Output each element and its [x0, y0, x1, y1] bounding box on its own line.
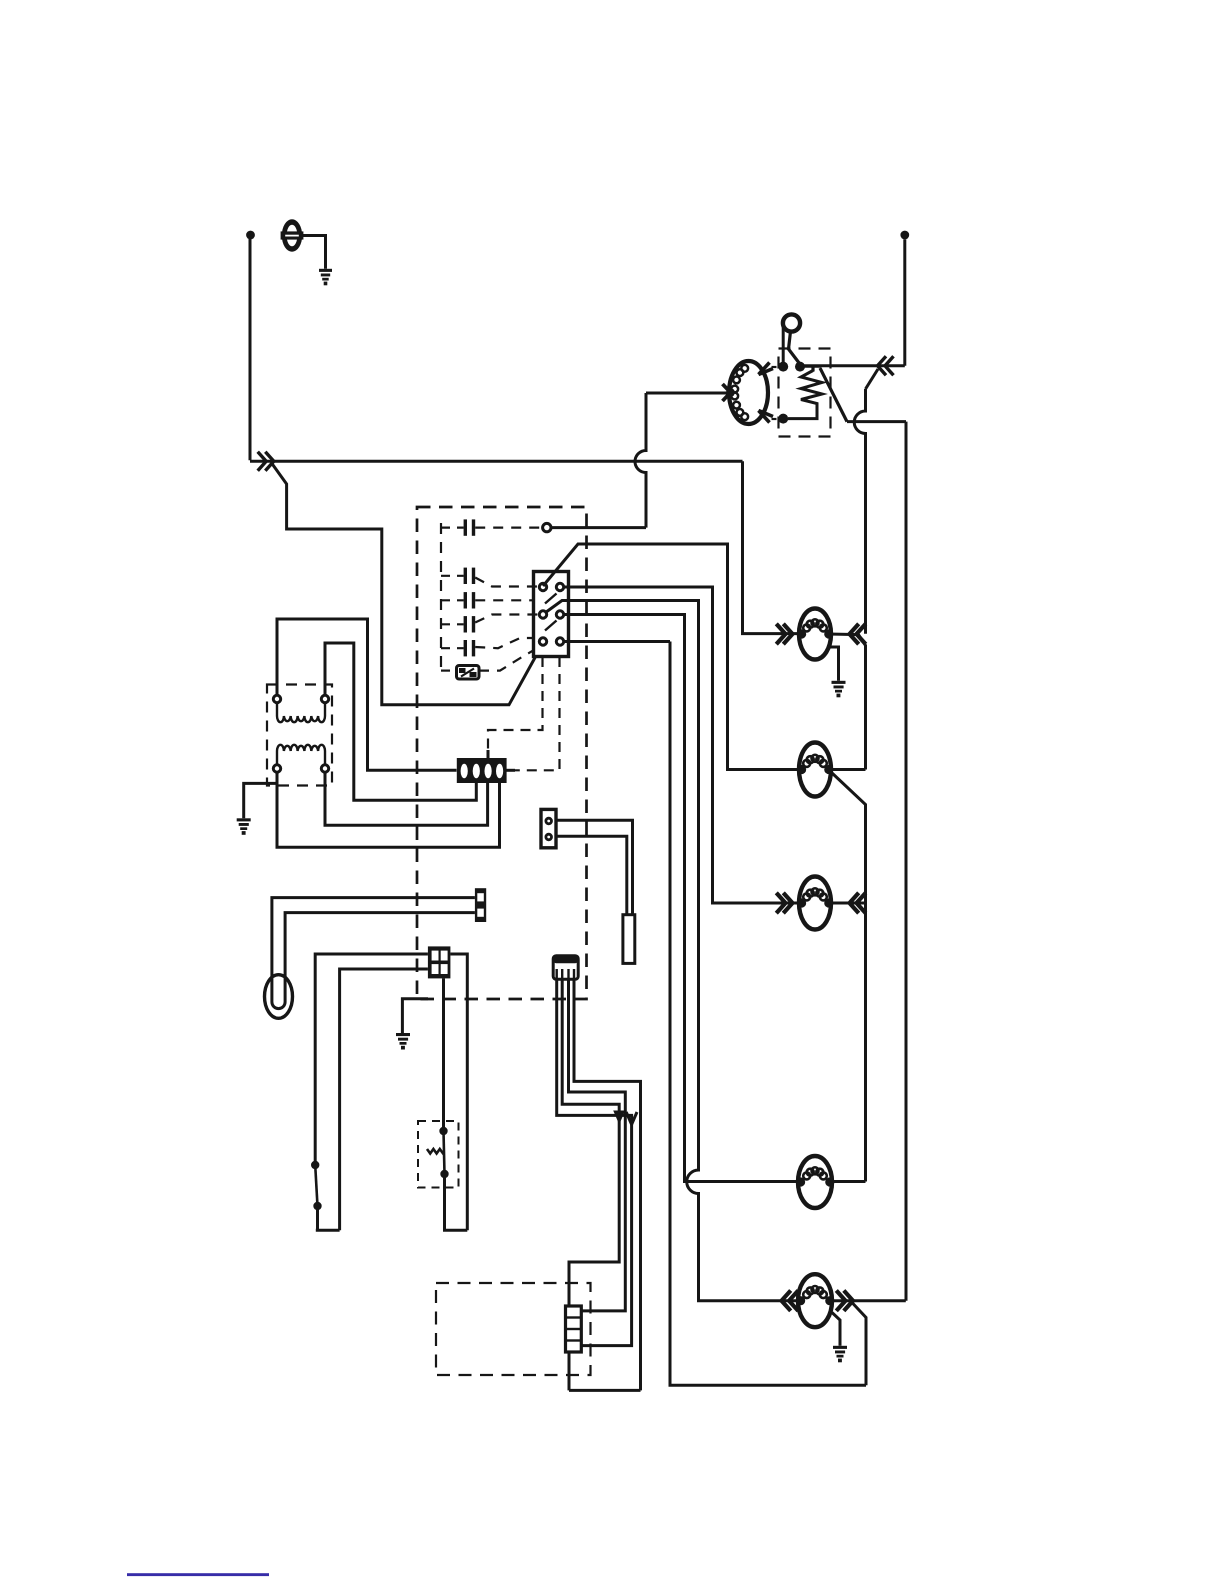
wire shield ground stub	[402, 999, 428, 1033]
switch S1 spring top bar	[805, 366, 822, 371]
wire lamp L2 right to lamp bus	[830, 768, 866, 771]
relay T1 dashed enclosure	[267, 685, 332, 786]
wire lamp L1 right jog to lamp bus	[828, 634, 866, 770]
node switch contact a	[778, 362, 788, 372]
switch thermal contact segment	[444, 1131, 445, 1174]
wire J4 w1 to return loop riser	[574, 979, 641, 1390]
node J2 pin 2	[545, 833, 553, 841]
wire main bus horizontal	[250, 460, 743, 463]
inductor T1 coil2	[277, 745, 325, 765]
motor M1 blower motor	[729, 361, 768, 424]
enclosure bottom dashed box	[436, 1283, 591, 1375]
wire switch to right bus	[801, 364, 905, 367]
node thermal switch dot a	[439, 1127, 447, 1135]
lamp L1	[797, 609, 833, 660]
node capacitor tap terminal	[543, 523, 551, 531]
connector arrows motor M1 linkage upper	[759, 363, 774, 375]
connector chevron into motor M1	[726, 388, 735, 397]
wire J3 left loop	[315, 954, 428, 1165]
node K1 pin 1L	[539, 583, 546, 590]
node K1 pin 2L	[539, 611, 546, 618]
node right bus top dot	[900, 231, 909, 240]
wire right bus long vertical	[905, 422, 908, 1301]
wire lamp bus with hop over blade	[854, 389, 865, 634]
capacitor C3	[464, 592, 467, 608]
connector J3 four-square body	[428, 946, 451, 978]
wire lever left drop	[782, 328, 785, 363]
node loop switch dot b	[313, 1202, 321, 1210]
wire dashed F2 leads	[441, 650, 534, 671]
wire lamp L3 right to lamp bus	[830, 902, 864, 905]
wire lamp L1 left lead	[758, 633, 799, 635]
node battery feed dot	[246, 231, 255, 240]
wire T1 coil2 left junction	[277, 773, 500, 848]
switch S1 blade	[820, 368, 847, 422]
wire battery feed vertical	[249, 235, 252, 460]
node K1 pin 1R	[556, 583, 563, 590]
wire dashed C4 leads	[441, 615, 538, 625]
connector chevrons lamp L1 left	[776, 624, 792, 644]
connector J4 four-pin body	[553, 956, 578, 980]
wire harness upper lead	[272, 898, 475, 1009]
node switch contact b	[795, 362, 805, 372]
wire T1 coil1 left to coil connector	[277, 619, 457, 770]
wire dashed K1 linkage down right	[515, 657, 560, 770]
node loop switch dot a	[311, 1161, 319, 1169]
wire J4 w3 to loop left leg	[562, 979, 619, 1390]
wire K1 pin3R to return loop	[563, 640, 670, 643]
node T1 coil1 right terminal	[321, 695, 328, 702]
connector chevrons lamp L1 right	[850, 624, 866, 644]
switch thermal squiggle	[427, 1149, 444, 1155]
connector arrow w3	[613, 1111, 625, 1125]
wire lamp bus diagonal from switch	[866, 369, 879, 389]
node T1 coil2 left terminal	[273, 765, 280, 772]
switch S1 lever arm	[789, 332, 800, 364]
wire loop bottom bar	[569, 1389, 641, 1392]
wire J2 pin2 to probe	[556, 836, 627, 914]
fuse F2 mini block	[457, 666, 480, 680]
resistor spring element	[801, 371, 822, 406]
node T1 coil2 right terminal	[321, 765, 328, 772]
capacitor C1	[464, 519, 467, 535]
ground shield ground	[396, 1033, 410, 1050]
ground T1 ground	[237, 818, 251, 835]
capacitor C4	[464, 616, 467, 632]
switch wiper stroke 1	[545, 594, 557, 604]
switch thermal dashed box	[418, 1121, 459, 1188]
wire capacitor tap to riser	[551, 526, 646, 529]
connector bar two-slot body	[475, 888, 486, 922]
connector chevrons lamp L3 left	[776, 893, 792, 913]
lamp L4	[796, 1156, 834, 1208]
wire K1 pin1R to lamp L3	[563, 587, 800, 903]
capacitor C5	[464, 640, 467, 656]
node K1 pin 3L	[539, 638, 546, 645]
connector arrow w4	[626, 1112, 637, 1125]
wire T1 coil1 right to coil connector pin1	[325, 643, 476, 800]
connector chevrons on main bus	[258, 452, 274, 471]
wire K1 pin2L to lamp L5 left	[546, 601, 800, 1301]
wire spring to contact c	[788, 406, 817, 419]
node J2 pin 1	[545, 817, 553, 825]
connector coil block body	[457, 758, 507, 783]
wire dashed linkage stubs	[772, 367, 780, 419]
wire dashed C1 leads	[441, 526, 542, 528]
wire dashed C3 lead	[441, 599, 533, 601]
probe element body	[623, 915, 635, 964]
ground lamp L1 ground	[832, 681, 846, 698]
terminal ring eyelet	[265, 975, 293, 1019]
wire T1 coil2 right to coil connector pin2	[325, 773, 488, 826]
wire feed to motor M1	[646, 392, 729, 395]
connector J5 hatched body	[566, 1306, 582, 1352]
node T1 coil1 left terminal	[273, 695, 280, 702]
wire lamp L4 right to lamp bus	[832, 1180, 866, 1183]
wire lamp L1 to ground	[829, 647, 839, 681]
wire J4 w4 to connector J5 tap B	[557, 979, 632, 1345]
enclosure inner dashed edge	[440, 523, 442, 671]
wire J3 bottom drop	[442, 978, 445, 1131]
fuse F1 cigar-lighter symbol	[281, 219, 304, 251]
wire J4 w2 to connector J5 tap A	[569, 979, 626, 1311]
lamp L3	[797, 877, 833, 930]
connector chevrons lamp L3 right	[850, 893, 866, 913]
decorative footer rule	[127, 1573, 269, 1576]
wire J2 pin1 to probe	[556, 820, 633, 914]
connector block K1 body	[534, 572, 569, 657]
wire J3 left loop bottom	[316, 969, 428, 1230]
lamp L2	[797, 743, 833, 797]
connector chevrons lamp L5 right	[836, 1291, 853, 1311]
wire coil block right stub	[507, 769, 516, 772]
wire return loop bottom	[670, 642, 866, 1386]
switch S1 lever knob	[783, 314, 800, 331]
connector chevrons switch feed	[878, 356, 894, 375]
wire blade output to right bus	[847, 420, 906, 423]
wire lamp L5 to ground	[832, 1313, 840, 1346]
wire dashed K1 linkage down left	[488, 657, 543, 750]
enclosure main dashed box	[417, 507, 587, 999]
wire riser with hop over bus	[635, 393, 646, 528]
node switch contact c	[778, 414, 788, 424]
ground lamp L5 ground	[833, 1346, 847, 1362]
connector chevrons lamp L5 left	[782, 1291, 799, 1311]
connector J2 two-pin body	[541, 809, 556, 847]
switch S1 dashed enclosure	[779, 349, 831, 437]
wire dashed C2 leads	[441, 576, 538, 587]
wire fuse to ground	[302, 236, 326, 269]
wire K1 pin2R to lamp L4	[563, 615, 798, 1182]
wire dashed C5 leads	[441, 638, 535, 648]
wire right bus top vertical	[903, 239, 906, 365]
wire lamp L5 right lead to right bus	[833, 1299, 906, 1302]
capacitor C2	[464, 568, 467, 584]
switch wiper stroke 2	[545, 621, 557, 631]
wire coil block top stub	[487, 750, 490, 759]
node K1 pin 2R	[556, 611, 563, 618]
node thermal switch dot b	[440, 1170, 448, 1178]
wire J3 right loop	[443, 954, 467, 1230]
wire lamp L5 right diagonal to return loop	[852, 1302, 867, 1385]
inductor T1 coil1	[277, 703, 325, 722]
wire T1 coil2 to ground	[244, 783, 277, 818]
node K1 pin 3R	[556, 638, 563, 645]
wire bus corner down to lamp L1	[743, 461, 801, 633]
switch inline tilt segment	[315, 1165, 317, 1206]
connector arrows motor M1 linkage lower	[759, 411, 774, 423]
ground fuse ground	[319, 269, 332, 286]
lamp L5	[796, 1274, 834, 1327]
wire K1 pin1L riser to lamp L2	[543, 544, 799, 770]
wire bus branch to accessory block	[271, 462, 543, 705]
wire lamp bus diagonal L2 to L3	[832, 773, 866, 1182]
